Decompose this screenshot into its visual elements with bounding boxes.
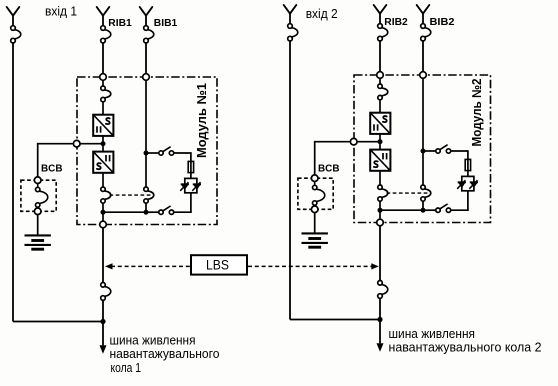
terminal node: BCB 1 top: [34, 177, 41, 184]
breaker RIB1: [101, 26, 111, 43]
breaker: bypass direct module 1: [144, 187, 154, 203]
wire: DC link to BCB branch module 1: [38, 143, 103, 180]
label load bus 2: [389, 326, 542, 355]
terminal node: BIB2 entry into module 2: [420, 72, 427, 79]
breaker: module 1 rectifier input: [101, 86, 111, 102]
wire: bypass breaker to bus module 2: [422, 201, 424, 210]
wire: inverter output module 1: [102, 173, 104, 187]
node: module 1 output bus left junction: [101, 210, 106, 215]
module No.1 dash-dot enclosure: [77, 77, 217, 225]
svg-text:LBS: LBS: [206, 258, 229, 273]
breaker BIB2: [421, 24, 431, 41]
switch: static bypass input module 1: [159, 147, 174, 156]
input line RIB1: [97, 7, 110, 26]
wire: reserve feeder tie 1: [13, 321, 103, 323]
terminal node: battery feed at module 1 border: [73, 140, 80, 147]
wire: bypass line to breaker module 2: [422, 153, 424, 185]
wire: bypass line to breaker module 1: [145, 155, 147, 187]
terminal node: BCB 2 bottom: [311, 206, 318, 213]
node: reserve feeder junction 2: [377, 317, 382, 322]
wire: fuse to static switch module 2: [467, 171, 469, 177]
wire: bypass breaker to bus module 1: [145, 203, 147, 212]
wire: output breaker to load arrow 1: [102, 300, 104, 345]
node: DC link / battery tap module 1: [101, 141, 106, 146]
wire: breaker to rectifier module 2: [379, 100, 381, 113]
terminal node: RIB2 entry into module 2: [377, 72, 384, 79]
wire: DC link module 2: [379, 134, 381, 150]
wire: module 1 rectifier input: [102, 80, 104, 86]
interlock dashed link module 2: [387, 192, 432, 194]
inverter (DC/AC converter) module 1: [93, 152, 113, 173]
svg-text:RIB1: RIB1: [108, 18, 132, 29]
module No.2 dash-dot enclosure: [354, 75, 491, 223]
fuse: static bypass module 1: [188, 161, 193, 172]
wire: bus to module 1 output terminal: [102, 212, 104, 221]
switch: static bypass input module 2: [436, 145, 451, 154]
inverter (DC/AC converter) module 2: [370, 150, 390, 171]
node: bypass tap module 2: [421, 149, 426, 154]
breaker RIB2: [378, 24, 388, 41]
wire: BCB 1 to battery: [37, 215, 39, 236]
fuse: static bypass module 2: [465, 159, 470, 170]
wire: BIB1 to module terminal: [145, 43, 147, 77]
wire: module 1 output bus: [103, 211, 146, 213]
static switch (antiparallel thyristors) module 2: [457, 176, 478, 190]
wire: BCB 2 to battery: [314, 213, 316, 234]
wire: static switch to lower switch module 1: [174, 193, 192, 212]
input feeder line вхід 2: [284, 5, 297, 24]
svg-text:BIB2: BIB2: [430, 17, 455, 28]
wire: BIB2 to module terminal: [422, 41, 424, 75]
wire: module 1 output down to load bus: [102, 228, 104, 283]
terminal node: BIB1 entry into module 1: [143, 74, 150, 81]
svg-text:BCB: BCB: [318, 163, 340, 174]
svg-text:RIB2: RIB2: [384, 17, 408, 28]
terminal node: BCB 1 bottom: [34, 208, 41, 215]
input line BIB2: [417, 5, 430, 24]
node: module 2 output bus left junction: [378, 208, 383, 213]
terminal node: BCB 2 top: [311, 175, 318, 182]
LBS dashed control link right arrow: [248, 263, 379, 269]
svg-text:навантажувального кола 2: навантажувального кола 2: [389, 340, 542, 355]
node: reserve feeder junction 1: [100, 319, 105, 324]
LBS block: [191, 255, 247, 274]
wire: lower switch to bus module 1: [146, 211, 159, 213]
breaker BIB1: [144, 26, 154, 43]
terminal node: module 1 output: [100, 221, 107, 228]
input feeder line вхід 1: [7, 7, 20, 26]
wire: bypass feed module 1: [145, 80, 147, 151]
wire: static switch to lower switch module 2: [451, 191, 469, 210]
BCB dashed enclosure 2: [298, 178, 333, 209]
static switch (antiparallel thyristors) module 1: [180, 178, 201, 192]
breaker on input feeder 2: [288, 24, 298, 41]
rectifier (AC/DC converter) module 1: [93, 115, 113, 136]
node: module 2 output bus right junction: [421, 208, 426, 213]
wire: feeder 1 vertical run to output bus: [12, 43, 14, 322]
svg-text:Модуль №2: Модуль №2: [469, 79, 484, 147]
svg-text:вхід 1: вхід 1: [45, 4, 77, 18]
wire: RIB2 to module terminal: [379, 41, 381, 75]
wire: switch to fuse corner module 2: [451, 150, 468, 159]
wire: module 2 output down to load bus: [379, 226, 381, 281]
svg-text:кола 1: кола 1: [111, 360, 142, 375]
wire: output breaker to load arrow 2: [379, 298, 381, 343]
wire: inverter breaker to output bus module 1: [102, 203, 104, 212]
wire: static bypass upper tap module 1: [148, 152, 159, 154]
input line RIB2: [374, 5, 387, 24]
rectifier (AC/DC converter) module 2: [370, 113, 390, 134]
terminal node: module 2 output: [377, 219, 384, 226]
breaker BCB 1 (battery circuit breaker): [36, 183, 48, 208]
wire: RIB1 to module terminal: [102, 43, 104, 77]
wire: inverter output module 2: [379, 171, 381, 185]
battery 2: [302, 233, 328, 247]
breaker BCB 2 (battery circuit breaker): [313, 181, 325, 206]
wire: lower switch to bus module 2: [423, 209, 436, 211]
wire: bus to module 2 output terminal: [379, 210, 381, 219]
node: module 1 output bus right junction: [144, 210, 149, 215]
terminal node: RIB1 entry into module 1: [100, 74, 107, 81]
interlock dashed link module 1: [110, 194, 155, 196]
wire: DC link module 1: [102, 136, 104, 152]
node: bypass tap module 1: [144, 151, 149, 156]
LBS dashed control link left arrow: [105, 263, 190, 269]
breaker on input feeder 1: [11, 26, 21, 43]
terminal node: battery feed at module 2 border: [350, 138, 357, 145]
wire: feeder 2 vertical run to output bus: [289, 41, 291, 320]
svg-text:Модуль №1: Модуль №1: [194, 83, 209, 158]
wire: switch to fuse corner module 1: [174, 152, 191, 161]
wire: module 2 output bus: [380, 209, 423, 211]
svg-text:вхід 2: вхід 2: [306, 7, 338, 21]
breaker: load bus output 1: [101, 283, 111, 301]
switch: static bypass output module 1: [159, 206, 174, 215]
load bus arrow 1: [100, 345, 107, 354]
wire: module 2 rectifier input: [379, 78, 381, 84]
wire: DC link to BCB branch module 2: [315, 141, 380, 178]
breaker: inverter output module 2: [378, 185, 388, 201]
wire: fuse to static switch module 1: [190, 173, 192, 179]
breaker: module 2 rectifier input: [378, 84, 388, 100]
input line BIB1: [140, 7, 153, 26]
wire: static bypass upper tap module 2: [425, 150, 436, 152]
svg-text:BIB1: BIB1: [154, 18, 178, 29]
BCB dashed enclosure 1: [21, 180, 56, 211]
wire: bypass feed module 2: [422, 78, 424, 149]
node: DC link / battery tap module 2: [378, 139, 383, 144]
battery 1: [25, 235, 51, 249]
switch: static bypass output module 2: [436, 204, 451, 213]
wire: inverter breaker to output bus module 2: [379, 201, 381, 210]
wire: breaker to rectifier module 1: [102, 102, 104, 115]
breaker: bypass direct module 2: [421, 185, 431, 201]
svg-text:BCB: BCB: [41, 163, 63, 174]
wire: reserve feeder tie 2: [290, 319, 380, 321]
label load bus 1: [110, 333, 220, 375]
load bus arrow 2: [377, 343, 384, 352]
breaker: load bus output 2: [378, 281, 388, 299]
breaker: inverter output module 1: [101, 187, 111, 203]
